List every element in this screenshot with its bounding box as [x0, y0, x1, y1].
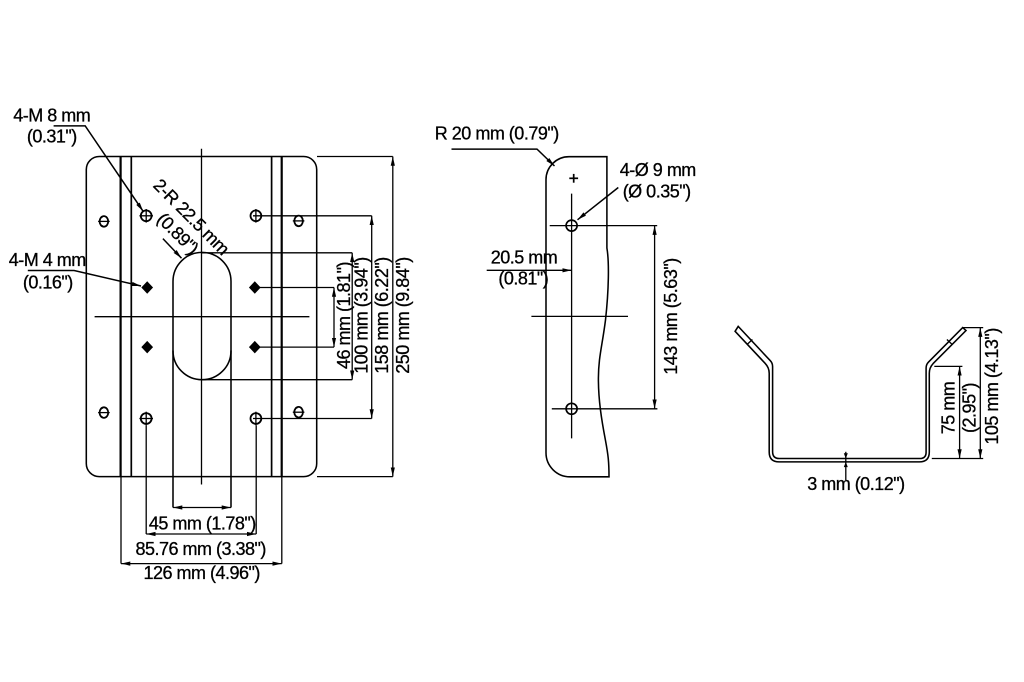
svg-text:45 mm (1.78"): 45 mm (1.78")	[149, 513, 256, 533]
svg-text:85.76 mm (3.38"): 85.76 mm (3.38")	[135, 539, 265, 559]
svg-text:250 mm (9.84"): 250 mm (9.84")	[393, 257, 413, 373]
svg-text:126 mm (4.96"): 126 mm (4.96")	[143, 563, 259, 583]
svg-text:(Ø 0.35"): (Ø 0.35")	[623, 182, 691, 202]
svg-text:20.5 mm: 20.5 mm	[491, 248, 558, 268]
svg-text:4-M 8 mm: 4-M 8 mm	[13, 106, 90, 126]
svg-text:(0.16"): (0.16")	[23, 273, 73, 293]
svg-text:3 mm (0.12"): 3 mm (0.12")	[807, 474, 904, 494]
svg-text:100 mm (3.94"): 100 mm (3.94")	[352, 257, 372, 373]
svg-text:R 20 mm (0.79"): R 20 mm (0.79")	[435, 124, 559, 144]
svg-text:158 mm (6.22"): 158 mm (6.22")	[372, 257, 392, 373]
svg-text:4-M 4 mm: 4-M 4 mm	[9, 250, 86, 270]
svg-text:(0.81"): (0.81")	[498, 269, 548, 289]
svg-text:143 mm (5.63"): 143 mm (5.63")	[661, 258, 681, 374]
svg-text:(2.95"): (2.95")	[960, 383, 980, 433]
svg-text:105 mm (4.13"): 105 mm (4.13")	[982, 328, 1002, 444]
svg-text:4-Ø 9 mm: 4-Ø 9 mm	[620, 160, 696, 180]
svg-text:(0.31"): (0.31")	[27, 127, 77, 147]
svg-text:75 mm: 75 mm	[939, 382, 959, 435]
